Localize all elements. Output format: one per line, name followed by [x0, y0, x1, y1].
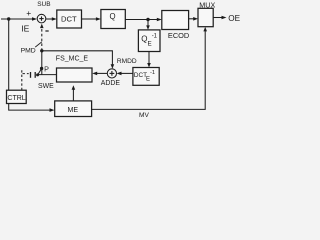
wire MUX to OE [213, 17, 222, 19]
svg-text:SWE: SWE [38, 83, 54, 90]
wire MV from ME to MUX [92, 30, 206, 109]
svg-text:ADDE: ADDE [101, 80, 121, 87]
svg-text:SUB: SUB [37, 1, 50, 8]
switch SWE pivot [36, 73, 39, 76]
adder SUB [37, 14, 46, 23]
wire P vertical to switch [41, 51, 43, 75]
wire IE input [1, 18, 33, 20]
svg-text:-1: -1 [152, 33, 158, 39]
switch SWE arm [38, 69, 42, 75]
svg-text:CTRL: CTRL [7, 95, 25, 102]
block FS_MC_E [57, 68, 93, 82]
wire ADDE to FS_MC_E [96, 72, 107, 74]
block DCTE-1 [133, 68, 159, 86]
block QE-1 [138, 30, 160, 52]
wire DCT to Q [82, 18, 98, 20]
wire P to ADDE top [42, 51, 113, 66]
wire ME up to FS_MC_E [72, 89, 74, 101]
node P contact [40, 67, 43, 70]
node IE junction [7, 17, 10, 20]
wire arrow into ME [50, 108, 55, 112]
block MUX [198, 8, 213, 26]
svg-text:ECOD: ECOD [168, 31, 189, 40]
wire switch to FS_MC_E [38, 74, 57, 76]
svg-text:FS_MC_E: FS_MC_E [56, 55, 89, 62]
adder ADDE [107, 69, 116, 78]
node after Q [146, 18, 149, 21]
wire P up to SUB minus (dashed) [41, 28, 43, 51]
wire Q to ECOD [125, 19, 158, 21]
svg-text:MV: MV [139, 112, 149, 119]
svg-text:-1: -1 [150, 70, 155, 76]
wire left vertical to ME [9, 19, 51, 110]
svg-text:OE: OE [228, 14, 240, 23]
svg-text:PMD: PMD [21, 48, 36, 55]
svg-text:DCT: DCT [61, 15, 77, 24]
block DCT [57, 10, 82, 28]
wire DCTE-1 to ADDE [120, 72, 133, 74]
svg-text:MUX: MUX [199, 0, 215, 9]
svg-text:P: P [44, 64, 49, 73]
block ME [55, 101, 92, 117]
svg-text:RMDD: RMDD [117, 58, 137, 65]
wire ECOD to MUX [189, 18, 195, 20]
svg-text:E: E [146, 76, 150, 82]
svg-text:Q: Q [110, 12, 116, 21]
wire QE-1 down to DCTE-1 [148, 52, 150, 65]
wire CTRL dashed control line [21, 68, 23, 90]
block CTRL [7, 90, 27, 103]
svg-text:IE: IE [21, 24, 29, 34]
switch SWE contact bar 1 [30, 72, 32, 78]
block Q [101, 10, 125, 29]
block ECOD [162, 11, 189, 30]
wire Q junction down to QE-1 [147, 20, 149, 27]
node P wire junction [40, 49, 43, 52]
label minus at SUB input [45, 30, 48, 31]
switch SWE contact bar 2 [34, 72, 36, 78]
svg-text:E: E [148, 40, 152, 47]
leader line PMD [35, 42, 42, 47]
svg-text:+: + [26, 8, 31, 18]
svg-text:ME: ME [68, 106, 79, 114]
wire SUB to DCT [46, 18, 53, 20]
wire arrow into SUB [32, 17, 37, 21]
